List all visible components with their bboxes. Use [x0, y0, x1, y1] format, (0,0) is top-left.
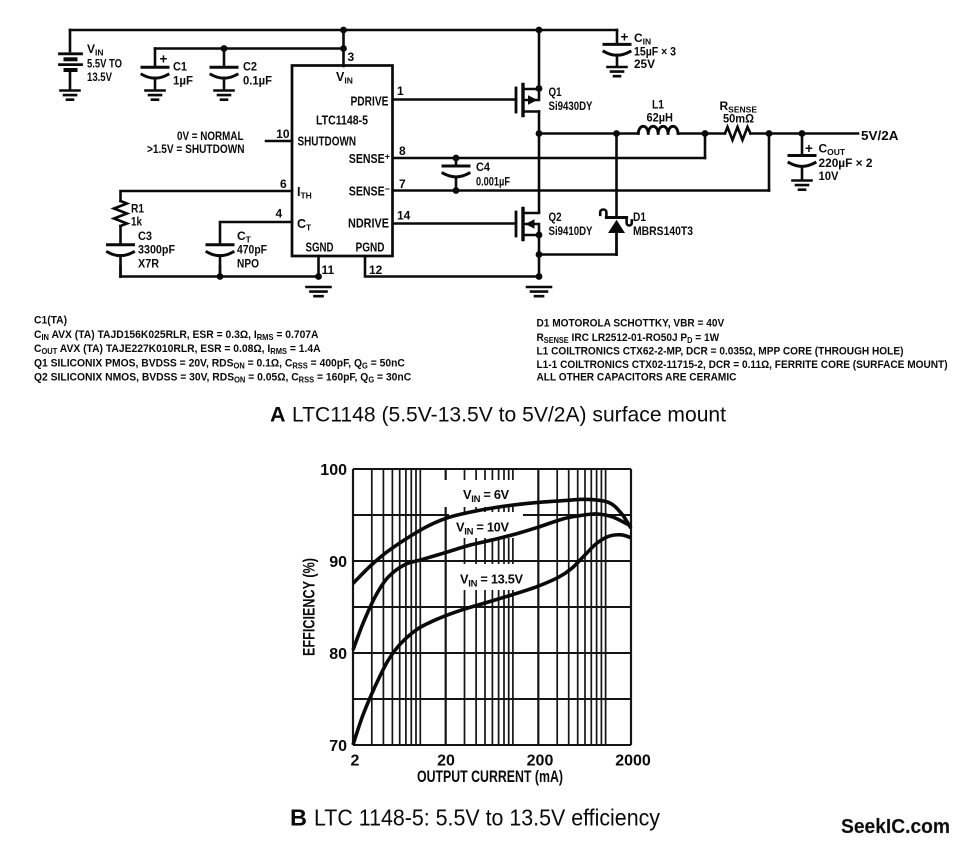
- svg-text:MBRS140T3: MBRS140T3: [633, 224, 693, 238]
- svg-text:1k: 1k: [131, 215, 142, 229]
- wire Q2 source down to ground rail: [538, 235, 541, 277]
- capacitor C2: [211, 67, 237, 90]
- svg-text:SGND: SGND: [306, 241, 334, 255]
- wire Q1 drain vertical from top rail: [538, 30, 541, 89]
- svg-text:Q1 SILICONIX PMOS, BVDSS = 20V: Q1 SILICONIX PMOS, BVDSS = 20V, RDSON​ =…: [34, 357, 405, 371]
- battery VIN 5.5V-13.5V: [60, 54, 82, 90]
- svg-text:PGND: PGND: [356, 241, 385, 255]
- wire D1 cathode vertical: [615, 134, 618, 218]
- wire C2 stem: [223, 49, 226, 68]
- svg-text:B: B: [290, 805, 307, 831]
- curve VIN = 10V: [353, 514, 631, 650]
- svg-text:C2: C2: [243, 60, 257, 74]
- op-amp U1 LTC1148-5 body: [292, 66, 393, 257]
- ground (battery VIN): [61, 91, 80, 100]
- wire C4 stem top: [455, 158, 458, 166]
- y axis labels: [320, 462, 347, 755]
- svg-text:0.1µF: 0.1µF: [243, 74, 272, 88]
- wire NDRIVE pin 14 to Q2 gate: [393, 222, 516, 225]
- svg-text:+: +: [805, 141, 813, 156]
- svg-text:62µH: 62µH: [647, 111, 674, 125]
- svg-text:CIN​ AVX (TA) TAJD156K025RLR,: CIN​ AVX (TA) TAJD156K025RLR, ESR = 0.3Ω…: [34, 329, 319, 343]
- svg-text:0.001µF: 0.001µF: [476, 175, 510, 189]
- svg-text:D1 MOTOROLA SCHOTTKY, VBR = 40: D1 MOTOROLA SCHOTTKY, VBR = 40V: [537, 317, 725, 329]
- wire junction dots: [217, 27, 806, 280]
- ground (SGND pin 11): [307, 287, 331, 296]
- svg-text:1: 1: [397, 84, 404, 98]
- ground (C2): [215, 91, 234, 100]
- svg-text:Q1: Q1: [549, 85, 562, 99]
- wire SENSE- tap from output node: [768, 134, 771, 191]
- svg-text:25V: 25V: [634, 57, 655, 71]
- wire D1 anode to Q2 source: [539, 253, 617, 256]
- wire SGND pin 11 down: [317, 256, 320, 277]
- inductor L1 62uH: [638, 126, 678, 133]
- svg-text:200: 200: [527, 753, 554, 770]
- svg-text:NDRIVE: NDRIVE: [348, 217, 389, 231]
- svg-text:SeekIC.com: SeekIC.com: [841, 815, 950, 838]
- wire PGND pin 12 to ground rail: [365, 256, 539, 277]
- svg-text:>1.5V = SHUTDOWN: >1.5V = SHUTDOWN: [147, 142, 245, 156]
- capacitor C1: [142, 67, 168, 90]
- svg-text:SHUTDOWN: SHUTDOWN: [298, 135, 357, 149]
- svg-text:0V = NORMAL: 0V = NORMAL: [177, 129, 244, 143]
- svg-text:SENSE+: SENSE+: [349, 152, 390, 167]
- svg-text:470pF: 470pF: [237, 243, 267, 257]
- svg-text:C1: C1: [173, 60, 187, 74]
- resistor RSENSE 50mOhm: [725, 127, 751, 140]
- svg-text:12: 12: [369, 263, 383, 277]
- svg-text:5.5V TO: 5.5V TO: [87, 57, 122, 71]
- svg-text:Q2: Q2: [549, 210, 562, 224]
- svg-text:PDRIVE: PDRIVE: [351, 95, 389, 109]
- svg-text:50mΩ: 50mΩ: [723, 112, 754, 126]
- svg-text:10V: 10V: [819, 169, 839, 183]
- graph curve label backgrounds: [444, 480, 537, 590]
- wire ITH pin 6 to R1: [121, 191, 293, 201]
- svg-text:SENSE−: SENSE−: [349, 184, 390, 199]
- svg-text:100: 100: [320, 462, 347, 479]
- svg-text:D1: D1: [633, 210, 646, 224]
- svg-text:10: 10: [276, 127, 290, 141]
- capacitor COUT: [789, 156, 815, 181]
- wire R1 to C3: [119, 226, 122, 244]
- wire PDRIVE pin 1 to Q1 gate: [393, 98, 516, 101]
- wire CIN stem: [616, 30, 619, 44]
- svg-text:11: 11: [322, 263, 335, 277]
- svg-text:L1 COILTRONICS CTX62-2-MP, DCR: L1 COILTRONICS CTX62-2-MP, DCR = 0.035Ω,…: [537, 345, 904, 357]
- svg-text:70: 70: [329, 738, 347, 755]
- wire pin 3 vertical: [342, 30, 345, 66]
- svg-text:5V/2A: 5V/2A: [861, 129, 899, 143]
- wire CT pin 4: [220, 222, 292, 244]
- capacitor CIN: [604, 44, 630, 66]
- curve VIN = 6V: [353, 499, 631, 583]
- svg-text:2000: 2000: [615, 753, 651, 770]
- ground (CIN): [608, 67, 627, 76]
- svg-text:2: 2: [351, 753, 360, 770]
- wire SENSE+ tap from L1 right: [704, 134, 707, 159]
- wire C1-C2 to pin 3: [155, 47, 344, 50]
- wire C1 stem: [154, 49, 157, 68]
- wire switch node to output: [539, 132, 858, 135]
- svg-text:L1: L1: [652, 98, 664, 112]
- ground (C1): [146, 91, 165, 100]
- wire top rail VIN: [70, 29, 617, 32]
- svg-text:8: 8: [399, 144, 406, 158]
- svg-text:Si9430DY: Si9430DY: [549, 99, 593, 113]
- wire bottom left rail R1-C3-CT-SGND: [121, 275, 319, 278]
- wire CT to rail: [219, 267, 222, 277]
- svg-text:13.5V: 13.5V: [87, 70, 112, 84]
- svg-text:90: 90: [329, 554, 347, 571]
- svg-text:NPO: NPO: [237, 257, 259, 271]
- svg-text:R1: R1: [131, 202, 144, 216]
- svg-text:LTC 1148-5: 5.5V to 13.5V effi: LTC 1148-5: 5.5V to 13.5V efficiency: [314, 805, 660, 831]
- capacitor C4: [443, 166, 469, 177]
- svg-text:X7R: X7R: [138, 257, 159, 271]
- svg-text:C1(TA): C1(TA): [34, 314, 67, 326]
- svg-text:OUTPUT CURRENT (mA): OUTPUT CURRENT (mA): [417, 768, 563, 786]
- caption A: LTC1148 surface mount: [270, 403, 726, 427]
- svg-text:L1-1 COILTRONICS CTX02-11715-2: L1-1 COILTRONICS CTX02-11715-2, DCR = 0.…: [537, 359, 948, 371]
- wire SHUTDOWN pin 10 stub: [266, 140, 292, 143]
- curve VIN = 13.5V: [353, 535, 631, 745]
- x axis labels: [351, 753, 651, 770]
- svg-text:3: 3: [348, 50, 355, 64]
- svg-text:+: +: [160, 52, 168, 67]
- svg-text:14: 14: [397, 209, 411, 223]
- svg-text:ALL OTHER CAPACITORS ARE CERAM: ALL OTHER CAPACITORS ARE CERAMIC: [537, 371, 737, 383]
- wire SENSE- pin 7: [393, 189, 769, 192]
- svg-text:80: 80: [329, 646, 347, 663]
- svg-text:+: +: [621, 30, 629, 45]
- svg-text:C4: C4: [476, 160, 490, 174]
- svg-text:220µF × 2: 220µF × 2: [819, 156, 873, 170]
- svg-text:EFFICIENCY (%): EFFICIENCY (%): [301, 558, 319, 656]
- transistor Q2 Si9410DY (NMOS): [516, 209, 539, 240]
- wire battery stem top: [69, 30, 72, 51]
- graph B grid: [353, 469, 631, 745]
- svg-text:C3: C3: [138, 229, 152, 243]
- wire Q2 drain vertical crossing sense lines: [538, 134, 541, 213]
- svg-text:4: 4: [276, 207, 283, 221]
- resistor R1 1k: [114, 201, 127, 226]
- svg-text:20: 20: [437, 753, 455, 770]
- svg-text:LTC1148-5: LTC1148-5: [316, 114, 368, 128]
- svg-text:6: 6: [280, 177, 287, 191]
- svg-text:LTC1148 (5.5V-13.5V to 5V/2A): LTC1148 (5.5V-13.5V to 5V/2A) surface mo…: [292, 404, 726, 427]
- wire C4 stem bottom: [455, 177, 458, 191]
- capacitor CT: [207, 245, 233, 277]
- svg-text:7: 7: [399, 177, 406, 191]
- wire SENSE+ pin 8: [393, 157, 705, 160]
- svg-text:1µF: 1µF: [173, 74, 193, 88]
- caption B: efficiency: [290, 805, 660, 831]
- ground (PGND / Q2 source): [527, 287, 551, 296]
- wire Q1 drain to switch node: [538, 112, 541, 134]
- wire COUT stem: [801, 134, 804, 156]
- ground (COUT): [793, 181, 812, 190]
- capacitor C3: [108, 245, 134, 277]
- diode D1 MBRS140T3 schottky: [600, 210, 632, 255]
- svg-text:3300pF: 3300pF: [138, 243, 175, 257]
- svg-text:Q2 SILICONIX NMOS, BVDSS = 30V: Q2 SILICONIX NMOS, BVDSS = 30V, RDSON​ =…: [34, 371, 411, 385]
- wire C3 to rail: [119, 267, 122, 277]
- transistor Q1 Si9430DY (PMOS): [516, 85, 539, 116]
- svg-text:Si9410DY: Si9410DY: [549, 224, 593, 238]
- svg-text:A: A: [270, 403, 286, 427]
